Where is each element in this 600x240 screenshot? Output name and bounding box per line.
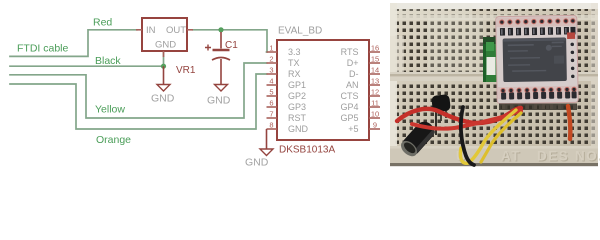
svg-text:GND: GND bbox=[151, 93, 175, 105]
black electrolytic capacitor bbox=[398, 118, 438, 159]
bottom edge shadow bbox=[390, 163, 598, 166]
watermark molded text shadow bbox=[457, 150, 600, 165]
svg-text:Black: Black bbox=[95, 55, 121, 67]
svg-text:VR1: VR1 bbox=[176, 65, 196, 76]
svg-text:D-: D- bbox=[349, 69, 359, 79]
castellation holes top row bbox=[500, 19, 575, 25]
IC left pin numbers bbox=[269, 44, 273, 130]
wire net YELLOW: row3 feed to pin 2 TX bbox=[10, 63, 267, 118]
regulator VR1 box bbox=[136, 18, 196, 76]
black wire bbox=[461, 107, 474, 165]
svg-text:TX: TX bbox=[288, 58, 300, 68]
center groove bbox=[390, 72, 598, 81]
module green daughter board bbox=[483, 37, 497, 82]
castellation holes bottom row bbox=[501, 87, 576, 93]
photo background bbox=[390, 3, 598, 166]
right edge glare bbox=[591, 3, 598, 166]
VR1 pin stub IN bbox=[136, 29, 142, 31]
svg-text:DES: DES bbox=[537, 149, 569, 164]
svg-text:4: 4 bbox=[269, 77, 273, 86]
svg-text:GND: GND bbox=[245, 157, 269, 169]
module PCB bbox=[496, 15, 579, 103]
solder strip bottom bbox=[498, 86, 577, 99]
svg-text:10: 10 bbox=[371, 110, 379, 119]
top white band bbox=[390, 3, 598, 9]
svg-text:16: 16 bbox=[371, 44, 379, 53]
svg-text:14: 14 bbox=[371, 66, 379, 75]
watermark molded text bbox=[456, 149, 600, 164]
svg-text:AT: AT bbox=[501, 149, 521, 164]
shield engravings bbox=[508, 42, 565, 72]
svg-text:EVAL_BD: EVAL_BD bbox=[278, 26, 322, 37]
svg-text:13: 13 bbox=[371, 77, 379, 86]
wire 3.3V rail: regulator OUT to IC pin 1 bbox=[193, 30, 267, 52]
IC right pin stubs 16-9 bbox=[369, 52, 380, 129]
left glare bbox=[390, 3, 397, 166]
svg-text:C1: C1 bbox=[225, 40, 238, 51]
svg-text:GP5: GP5 bbox=[340, 113, 358, 123]
ground symbol under IC bbox=[260, 149, 273, 156]
VR1 pin stub GND bottom bbox=[163, 51, 165, 57]
svg-text:RTS: RTS bbox=[341, 47, 359, 57]
C1 top plate bbox=[213, 49, 230, 51]
svg-text:GND: GND bbox=[207, 95, 231, 107]
header pins under top row bbox=[500, 27, 576, 36]
yellow wire strand 1 bbox=[460, 110, 516, 163]
svg-text:GND: GND bbox=[288, 124, 309, 134]
red wire B bbox=[412, 111, 521, 129]
svg-text:+5: +5 bbox=[348, 124, 358, 134]
svg-text:7: 7 bbox=[269, 110, 273, 119]
wire regulator GND down to black row junction bbox=[163, 51, 165, 66]
mid glare bbox=[428, 18, 483, 72]
IC left pin labels bbox=[288, 47, 309, 134]
svg-text:FTDI cable: FTDI cable bbox=[17, 43, 69, 55]
junction dot at VR1 GND / black row bbox=[161, 64, 166, 69]
IC right pin labels bbox=[340, 47, 358, 134]
wire net ORANGE: row4 feed to pin 3 RX bbox=[10, 74, 267, 129]
svg-text:Orange: Orange bbox=[96, 134, 131, 146]
wire IC pin 8 GND to ground bbox=[245, 129, 273, 169]
svg-text:5: 5 bbox=[269, 88, 273, 97]
wire net GND-BLACK row bbox=[10, 65, 164, 67]
svg-text:RST: RST bbox=[288, 113, 307, 123]
svg-text:IN: IN bbox=[146, 25, 156, 36]
RF shield bbox=[503, 37, 567, 82]
C1 plus sign bbox=[205, 45, 211, 51]
red wire A bbox=[397, 108, 521, 123]
header pins in breadboard below module bbox=[499, 104, 577, 111]
IC right pin numbers bbox=[371, 44, 379, 130]
svg-text:GP3: GP3 bbox=[288, 102, 306, 112]
svg-text:GP2: GP2 bbox=[288, 91, 306, 101]
svg-text:NO.: NO. bbox=[575, 149, 600, 164]
svg-text:2: 2 bbox=[269, 55, 273, 64]
svg-text:6: 6 bbox=[269, 99, 273, 108]
svg-text:GP4: GP4 bbox=[340, 102, 358, 112]
black transistor bbox=[431, 94, 451, 135]
svg-text:3: 3 bbox=[269, 66, 273, 75]
svg-text:RX: RX bbox=[288, 69, 301, 79]
svg-text:D+: D+ bbox=[347, 58, 359, 68]
capacitor C1 bbox=[205, 32, 238, 85]
ground symbol under VR1 bbox=[151, 66, 175, 104]
svg-text:Yellow: Yellow bbox=[95, 104, 125, 116]
svg-text:AN: AN bbox=[346, 80, 359, 90]
svg-text:Red: Red bbox=[93, 17, 112, 29]
svg-text:OUT: OUT bbox=[166, 25, 186, 36]
svg-text:3.3: 3.3 bbox=[288, 47, 301, 57]
svg-text:DKSB1013A: DKSB1013A bbox=[279, 145, 335, 156]
red component top-right bbox=[567, 32, 575, 39]
bottom pin blobs bbox=[501, 91, 577, 99]
orange wire bbox=[568, 106, 570, 139]
IC U1 EVAL_BD box bbox=[277, 26, 369, 156]
svg-text:1: 1 bbox=[269, 44, 273, 53]
svg-text:12: 12 bbox=[371, 88, 379, 97]
VR1 pin stub OUT bbox=[187, 29, 193, 31]
solder strip top bbox=[497, 16, 576, 27]
ground symbol under C1 bbox=[207, 85, 231, 107]
IC left pin stubs 1-8 bbox=[267, 52, 278, 129]
wire net VCC-RED: FTDI underline up to regulator IN bbox=[10, 30, 137, 57]
breadboard holes bbox=[394, 9, 596, 161]
svg-text:9: 9 bbox=[373, 121, 377, 130]
svg-text:CTS: CTS bbox=[341, 91, 359, 101]
C1 bottom curved plate bbox=[212, 58, 230, 61]
yellow wire strand 2 bbox=[481, 113, 521, 162]
svg-text:GP1: GP1 bbox=[288, 80, 306, 90]
svg-text:15: 15 bbox=[371, 55, 379, 64]
castellation right column bbox=[570, 42, 575, 79]
svg-text:8: 8 bbox=[269, 121, 273, 130]
top-left glare bbox=[390, 3, 472, 20]
svg-text:GND: GND bbox=[155, 40, 176, 51]
lower groove / blank bottom strip bbox=[390, 146, 598, 163]
svg-text:11: 11 bbox=[371, 99, 379, 108]
junction dot at C1 top bbox=[218, 27, 223, 32]
